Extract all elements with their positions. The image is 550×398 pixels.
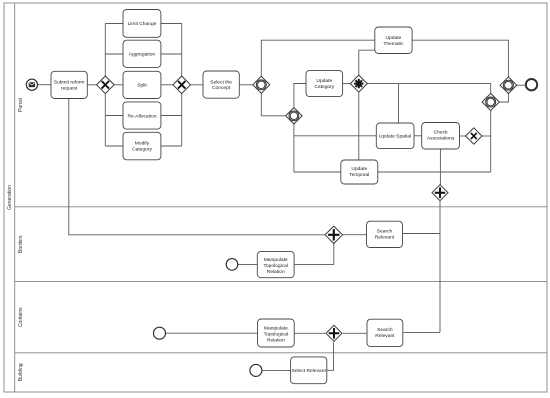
wire Check Associations bottom to G9 top (439, 149, 441, 185)
gateway G11 parallel + (326, 325, 342, 341)
task Limit Change (123, 10, 161, 38)
svg-text:Select theConcept: Select theConcept (210, 79, 232, 91)
gateway G8 exclusive X (466, 128, 482, 144)
wire G11 right to Search Relevant Contains (343, 332, 367, 334)
wire branch to Re-Allocation (105, 115, 123, 117)
svg-text:SearchRelevant: SearchRelevant (375, 327, 395, 339)
svg-text:UpdateCategory: UpdateCategory (314, 78, 334, 90)
wire Search Relevant Borders right to vertical (403, 233, 441, 235)
gateway G10 parallel + (325, 226, 342, 243)
wire Search Relevant Contains right to vertical (403, 331, 440, 333)
wire Borders start to Manipulate (238, 263, 257, 265)
gateway G9 parallel + (432, 185, 448, 201)
task Search Relevant (Contains) (367, 319, 403, 346)
wire G8 right to vertical (482, 135, 491, 137)
svg-text:Update Spatial: Update Spatial (379, 133, 411, 139)
start event (Contains) (154, 327, 166, 339)
wire Limit Change to G2 (161, 23, 182, 25)
task Update Spatial (376, 123, 414, 149)
svg-text:SearchRelevant: SearchRelevant (375, 229, 395, 241)
wire branch to Update Spatial left (294, 135, 376, 137)
wire Re-Allocation to G2 (161, 115, 182, 117)
gateway G4 event-based (286, 108, 302, 124)
task Manipulate Topological Relation (Contains) (258, 319, 295, 347)
task Aggregation (123, 40, 161, 67)
wire Split to G2 (161, 84, 173, 86)
wire Building start to Select Relevant (262, 369, 291, 371)
wire G5 bottom to Update Temporal top (358, 92, 360, 160)
task Search Relevant (Borders) (367, 221, 403, 247)
gateway G1 exclusive X (97, 76, 115, 94)
wire branch down to Update Spatial top (398, 84, 400, 123)
task Check Associations (422, 123, 460, 150)
wire start to Submit task (38, 84, 52, 86)
wire Select the Concept to G3 (239, 84, 252, 86)
svg-text:UpdateThematic: UpdateThematic (383, 35, 404, 47)
wire G3 down to G4 (261, 93, 285, 115)
start event (Borders) (226, 259, 238, 271)
wire G2 to Select the Concept (191, 84, 203, 86)
wire Contains start to Manipulate (166, 332, 258, 334)
wire Update Category to complex gateway G5 (343, 83, 351, 85)
pool label divider (14, 3, 16, 392)
svg-text:Contains: Contains (18, 307, 24, 327)
svg-text:Limit Change: Limit Change (128, 21, 157, 27)
svg-text:ManipulateTopologicalRelation: ManipulateTopologicalRelation (263, 257, 287, 275)
task Manipulate Topological Relation (Borders) (257, 251, 294, 277)
wire Update Temporal right to vertical (378, 171, 491, 173)
task Re-Allocation (123, 102, 161, 129)
gateway G6 event-based (482, 93, 499, 110)
wire Submit bottom down to G10 (69, 99, 325, 235)
end event (Parcel) (526, 79, 537, 90)
svg-text:ManipulateTopologicalRelation: ManipulateTopologicalRelation (264, 326, 288, 344)
svg-text:Generation: Generation (7, 185, 13, 210)
task Modify Category (123, 132, 161, 160)
gateway G7 event-based (500, 77, 517, 94)
wire G6 right to G7 bottom (499, 94, 508, 102)
wire G7 right to end event (517, 84, 526, 86)
wire G10 right to Search Relevant Borders (343, 234, 367, 236)
start event (Building) (250, 364, 262, 376)
wire G1 vertical down branch (104, 94, 106, 146)
wire G5 right to G6 top (367, 84, 490, 94)
task Submit reform request (51, 71, 87, 98)
task Update Category (306, 70, 343, 96)
gateway G5 complex (asterisk) (350, 75, 367, 92)
wire G2 vertical down branch (181, 94, 183, 146)
svg-text:Select Relevant: Select Relevant (292, 368, 327, 374)
wire G4 down to Update Temporal (294, 124, 341, 172)
task Select Relevant (291, 357, 327, 384)
lane boundary Parcel/Borders (15, 206, 547, 208)
svg-text:Re-Allocation: Re-Allocation (127, 113, 156, 119)
start event message (Parcel) (26, 79, 37, 90)
lane boundary Borders/Contains (15, 281, 547, 283)
svg-text:Split: Split (137, 83, 147, 89)
svg-text:Borders: Borders (18, 235, 24, 253)
task Split (123, 71, 161, 98)
wire vertical G6 bottom down (490, 111, 492, 172)
wire Select Relevant right up to G11 bottom (327, 342, 334, 370)
wire G1 to Split (114, 84, 123, 86)
svg-text:UpdateTemporal: UpdateTemporal (349, 166, 369, 178)
svg-text:Building: Building (18, 363, 24, 381)
wire branch to Limit Change (105, 23, 123, 25)
wire G3 up to Update Thematic (261, 40, 375, 76)
gateway G2 exclusive X (173, 76, 191, 94)
wire Submit task to gateway G1 (87, 84, 96, 86)
svg-text:Aggregation: Aggregation (129, 52, 156, 58)
wire G5 top to Update Thematic (359, 50, 375, 75)
svg-text:Parcel: Parcel (18, 98, 24, 112)
wire G2 vertical up branch (181, 24, 183, 77)
wire Update Spatial to Check Associations (414, 135, 422, 137)
task Select the Concept (203, 71, 239, 98)
task Update Thematic (375, 27, 412, 54)
wire Manipulate Borders right to G10 bottom (294, 244, 334, 265)
wire branch to Aggregation (105, 53, 123, 55)
lane boundary Contains/Building (15, 352, 547, 354)
task Update Temporal (341, 160, 378, 184)
wire Modify Category to G2 (161, 145, 182, 147)
wire branch to Modify Category (105, 145, 123, 147)
wire Manipulate Contains to G11 (294, 332, 325, 334)
wire G4 up to Update Category (294, 84, 306, 108)
wire G9 bottom long vertical (439, 201, 441, 333)
gateway G3 event-based (253, 76, 270, 93)
wire G1 vertical up branch (104, 24, 106, 77)
wire Update Thematic right to G7 top (412, 40, 508, 77)
wire Aggregation to G2 (161, 53, 182, 55)
wire Check Associations to X gateway G8 (460, 135, 466, 137)
